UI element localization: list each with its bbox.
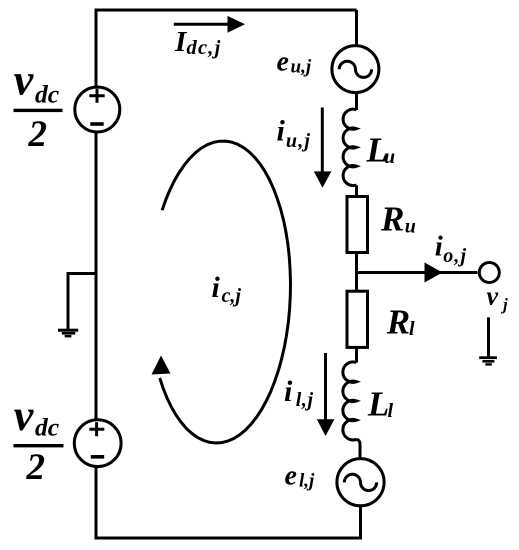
svg-text:o,j: o,j (443, 245, 467, 267)
svg-text:u,j: u,j (291, 57, 312, 78)
svg-text:u,j: u,j (286, 130, 311, 152)
svg-text:v: v (14, 56, 34, 105)
svg-text:L: L (367, 384, 389, 423)
svg-text:v: v (487, 282, 499, 311)
svg-text:2: 2 (28, 114, 48, 155)
svg-text:l,j: l,j (299, 471, 315, 492)
svg-text:dc: dc (35, 413, 59, 442)
svg-text:l: l (409, 318, 415, 340)
svg-text:i: i (435, 230, 443, 262)
svg-text:v: v (14, 391, 34, 440)
svg-text:R: R (386, 303, 410, 342)
svg-text:i: i (284, 375, 293, 408)
svg-text:l,j: l,j (296, 389, 314, 411)
svg-text:2: 2 (26, 447, 46, 488)
svg-text:e: e (285, 461, 297, 492)
svg-text:dc,j: dc,j (187, 37, 222, 59)
svg-text:i: i (212, 271, 221, 304)
svg-text:l: l (388, 400, 394, 422)
svg-text:dc: dc (35, 79, 59, 108)
svg-text:u: u (405, 216, 416, 238)
svg-text:u: u (384, 146, 395, 168)
svg-text:R: R (380, 199, 404, 238)
svg-text:c,j: c,j (222, 285, 242, 307)
svg-text:e: e (277, 46, 289, 77)
svg-text:i: i (277, 114, 286, 147)
